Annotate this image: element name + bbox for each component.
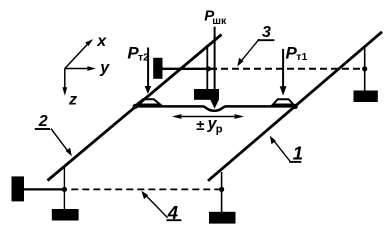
hanger rod middle (rail 1 to junction and weight) [221,172,223,212]
svg-text:т1: т1 [296,51,307,63]
force arrow P_T1 [282,49,284,88]
svg-text:1: 1 [293,143,303,164]
leader arrow for 3 [241,39,260,62]
pulley suspension main rod [214,27,216,90]
wheelset axle line with central notch [135,106,295,110]
bottom left weight [52,209,79,221]
svg-text:z: z [68,92,77,109]
junction dot line 4 right [219,187,224,192]
coordinate axes x y z [65,41,92,92]
pulley body [194,89,219,100]
z axis arrowhead [62,87,67,96]
y axis arrowhead [87,66,96,71]
svg-text:3: 3 [262,24,271,41]
svg-text:±: ± [196,117,204,134]
leader arrow for 1 [273,140,290,162]
pulley tip wedge [210,99,219,108]
junction dot axle left [133,104,138,109]
bottom middle weight [209,212,236,224]
x axis arrowhead [85,39,93,46]
junction dot line 4 left [62,187,67,192]
svg-text:p: p [216,123,223,135]
rail 2 (left diagonal) [48,35,222,181]
hanger rod right (rail 1 to line 3 and weight) [364,47,366,91]
counterweight block on line 3 [153,58,162,79]
junction dot line 3 fork [206,66,211,71]
right wheel profile [273,99,294,104]
rod from wall weight to junction [24,188,64,190]
leader arrow for 4 [145,194,168,218]
svg-text:2: 2 [38,113,48,130]
svg-text:y: y [99,59,110,76]
svg-text:т2: т2 [138,52,149,64]
hanger rod left (rail 2 to junction and weight) [63,166,65,210]
pulley suspension fork rod [206,46,208,90]
left wall weight [12,176,25,201]
measuring line 3 dashed part [221,68,365,70]
right weight [354,91,378,103]
force arrow P_T2 [147,48,149,89]
measuring line 3 solid part [163,68,218,70]
dashed line 4 [71,188,221,190]
rail 1 (right diagonal) [208,32,382,181]
svg-text:шк: шк [212,15,227,27]
dimension arrow ±y_p [176,116,240,118]
left wheel profile [137,99,161,104]
svg-text:x: x [96,33,107,50]
junction dot line 3 right [362,66,367,71]
junction dot axle right [293,104,298,109]
leader arrow for 2 [51,129,69,153]
